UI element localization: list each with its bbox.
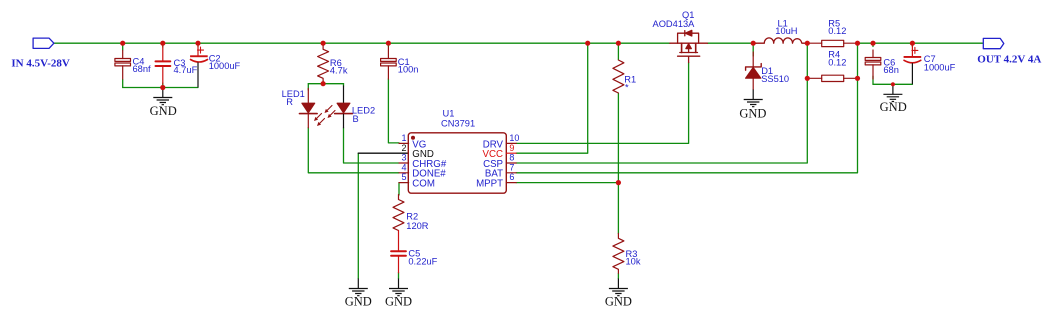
LED2 xyxy=(335,86,353,128)
junction MPPT divider xyxy=(616,180,621,185)
resistor R1 xyxy=(613,60,624,93)
junction C3 rail xyxy=(160,41,165,46)
diode D1 SS510 xyxy=(746,52,762,90)
resistor R3 xyxy=(613,234,624,274)
svg-text:OUT 4.2V 4A: OUT 4.2V 4A xyxy=(977,54,1041,66)
U1 pin10 stub xyxy=(506,142,516,144)
LED1 light arrows xyxy=(314,114,325,127)
wire C2 branch xyxy=(197,43,199,46)
U1 pin7 stub xyxy=(506,172,516,174)
svg-text:GND: GND xyxy=(345,295,372,309)
junction R5 right rail xyxy=(855,41,860,46)
svg-text:68nf: 68nf xyxy=(133,64,152,74)
junction R4 left xyxy=(805,76,810,81)
wire R1 branch xyxy=(617,43,619,182)
resistor R5 xyxy=(808,40,856,46)
LED2 light arrows xyxy=(325,106,336,119)
wire R3 to ground xyxy=(617,274,619,279)
capacitor C5 xyxy=(391,231,406,273)
wire LED top rail xyxy=(308,83,343,85)
wire C6 branch xyxy=(872,43,874,84)
svg-text:GND: GND xyxy=(880,100,907,114)
resistor R6 xyxy=(318,45,329,83)
wire LED1 anode xyxy=(307,84,309,90)
svg-text:LED1: LED1 xyxy=(282,89,305,99)
ground GND2 xyxy=(389,279,408,296)
capacitor C2 polarized xyxy=(190,46,208,87)
wire COM to R2 xyxy=(398,183,400,195)
svg-text:0.12: 0.12 xyxy=(828,57,846,67)
svg-text:10uH: 10uH xyxy=(775,26,797,36)
junction C2 rail xyxy=(195,41,200,46)
wire main input rail xyxy=(54,42,670,44)
junction C4 rail xyxy=(120,41,125,46)
svg-text:8: 8 xyxy=(509,153,514,163)
wire LED1 cathode to DONE# xyxy=(308,128,399,173)
wire CSP to divider xyxy=(516,43,807,163)
connector OUT xyxy=(983,38,1004,48)
wire VCC to rail xyxy=(516,43,588,153)
capacitor C6 xyxy=(865,50,881,79)
svg-text:120R: 120R xyxy=(406,221,429,231)
capacitor C7 polarized xyxy=(904,46,922,84)
inductor L1 xyxy=(755,38,807,43)
svg-text:1000uF: 1000uF xyxy=(209,61,241,71)
wire GND pin2 to ground xyxy=(357,153,359,278)
capacitor C4 xyxy=(115,51,131,80)
U1 pin6 stub xyxy=(506,182,516,184)
wire input cap ground rail xyxy=(123,87,198,89)
svg-text:4.7k: 4.7k xyxy=(330,66,348,76)
svg-text:MPPT: MPPT xyxy=(476,179,503,190)
svg-text:*: * xyxy=(625,83,629,93)
wire LED2 cathode to CHRG# xyxy=(344,128,400,163)
junction input ground rail xyxy=(160,85,165,90)
U1 pin1 stub xyxy=(399,142,409,144)
LED1 xyxy=(300,89,318,128)
wire divider to R3 xyxy=(617,183,619,234)
svg-text:1: 1 xyxy=(401,133,406,143)
GROUND SYMBOLS xyxy=(153,84,902,295)
svg-text:7: 7 xyxy=(509,163,514,173)
svg-text:GND: GND xyxy=(605,295,632,309)
svg-text:B: B xyxy=(353,114,359,124)
wire LED2 anode xyxy=(343,84,345,86)
resistor R4 xyxy=(808,75,857,81)
svg-text:10: 10 xyxy=(509,133,519,143)
svg-text:R: R xyxy=(286,97,293,107)
ground under D1 xyxy=(744,90,763,107)
svg-text:9: 9 xyxy=(509,143,514,153)
wire C1 branch xyxy=(388,43,399,143)
svg-text:AOD413A: AOD413A xyxy=(653,19,696,29)
svg-text:100n: 100n xyxy=(398,64,419,74)
svg-text:0.12: 0.12 xyxy=(828,26,846,36)
junction VCC rail xyxy=(585,41,590,46)
junction R4 right xyxy=(855,76,860,81)
wire MPPT to divider xyxy=(516,182,618,184)
svg-text:4: 4 xyxy=(401,163,406,173)
wire R6 branch xyxy=(322,43,324,83)
svg-text:1000uF: 1000uF xyxy=(924,62,956,72)
wire C7 branch xyxy=(911,43,913,46)
svg-text:2: 2 xyxy=(401,143,406,153)
wire C5 to ground xyxy=(398,273,400,279)
svg-text:GND: GND xyxy=(385,295,412,309)
op-amp U1 CN3791 body xyxy=(408,133,506,193)
svg-text:5: 5 xyxy=(401,172,406,182)
svg-text:6: 6 xyxy=(509,172,514,182)
svg-text:4.7uF: 4.7uF xyxy=(174,65,198,75)
svg-text:GND: GND xyxy=(150,104,177,118)
capacitor C1 xyxy=(381,47,397,79)
svg-text:CN3791: CN3791 xyxy=(441,118,475,128)
svg-text:SS510: SS510 xyxy=(761,74,789,84)
connector IN xyxy=(33,38,54,48)
junction R6 LED rail xyxy=(321,81,326,86)
wire C3 branch xyxy=(162,43,164,87)
wire pin2 black segment xyxy=(358,152,408,154)
junction R1 rail xyxy=(616,41,621,46)
U1 pin9 stub VCC xyxy=(506,152,516,154)
svg-text:0.22uF: 0.22uF xyxy=(408,257,437,267)
ground GND1 xyxy=(349,279,368,296)
wire C4 branch xyxy=(122,43,124,87)
wire main output rail xyxy=(707,42,983,44)
junction C1 rail xyxy=(386,41,391,46)
junction C7 rail xyxy=(910,41,915,46)
svg-text:U1: U1 xyxy=(443,108,455,118)
U1 pin8 stub xyxy=(506,162,516,164)
resistor R2 xyxy=(393,195,404,231)
svg-text:GND: GND xyxy=(739,107,766,121)
wire D1 branch xyxy=(752,43,754,56)
U1 pin1 dot xyxy=(411,136,415,140)
ground under C3 xyxy=(153,88,172,105)
capacitor C3 xyxy=(156,46,171,84)
U1 pin5 stub xyxy=(399,182,409,184)
wire DRV to Q1 gate xyxy=(516,63,688,144)
svg-text:COM: COM xyxy=(412,179,435,190)
junction C6 rail xyxy=(870,41,875,46)
U1 pin3 stub xyxy=(399,162,409,164)
svg-text:IN 4.5V-28V: IN 4.5V-28V xyxy=(11,58,70,70)
wire BAT to output xyxy=(516,43,857,173)
junction R6 rail xyxy=(321,41,326,46)
svg-text:10k: 10k xyxy=(626,257,641,267)
transistor Q1 AOD413A xyxy=(670,30,708,62)
wire output cap ground rail xyxy=(873,83,912,85)
ground under C6 C7 xyxy=(883,84,902,101)
junction output ground rail xyxy=(891,82,895,86)
U1 pin4 stub xyxy=(399,172,409,174)
junction R5 left rail xyxy=(805,41,810,46)
junction D1 rail xyxy=(751,41,756,46)
ground GND3 xyxy=(609,279,628,296)
svg-text:68n: 68n xyxy=(883,65,899,75)
svg-text:3: 3 xyxy=(401,153,406,163)
svg-text:R2: R2 xyxy=(406,212,418,222)
